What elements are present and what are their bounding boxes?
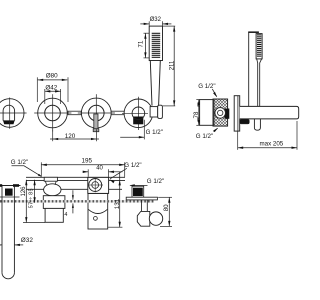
svg-text:Ø32: Ø32 — [21, 237, 34, 244]
svg-text:G 1/2": G 1/2" — [11, 159, 28, 166]
svg-text:Ø42: Ø42 — [45, 84, 57, 91]
svg-text:Ø32: Ø32 — [150, 17, 162, 23]
svg-text:G 1/2": G 1/2" — [196, 133, 213, 140]
svg-text:195: 195 — [82, 157, 93, 164]
svg-text:120: 120 — [65, 133, 76, 140]
svg-text:80: 80 — [163, 204, 170, 211]
svg-text:Ø80: Ø80 — [46, 72, 58, 79]
svg-text:40: 40 — [96, 166, 103, 172]
svg-text:G 1/2": G 1/2" — [124, 162, 141, 169]
svg-text:G 1/2": G 1/2" — [198, 83, 215, 90]
svg-text:G 1/2": G 1/2" — [146, 129, 163, 136]
svg-text:71: 71 — [137, 40, 144, 48]
svg-text:78: 78 — [194, 111, 200, 118]
svg-text:57 ÷ 85: 57 ÷ 85 — [29, 188, 35, 208]
svg-text:G 1/2": G 1/2" — [147, 178, 164, 185]
svg-text:131: 131 — [114, 198, 121, 209]
svg-text:max 205: max 205 — [260, 140, 284, 147]
svg-text:211: 211 — [169, 60, 175, 70]
svg-text:4: 4 — [64, 212, 67, 218]
svg-text:126: 126 — [21, 186, 27, 197]
